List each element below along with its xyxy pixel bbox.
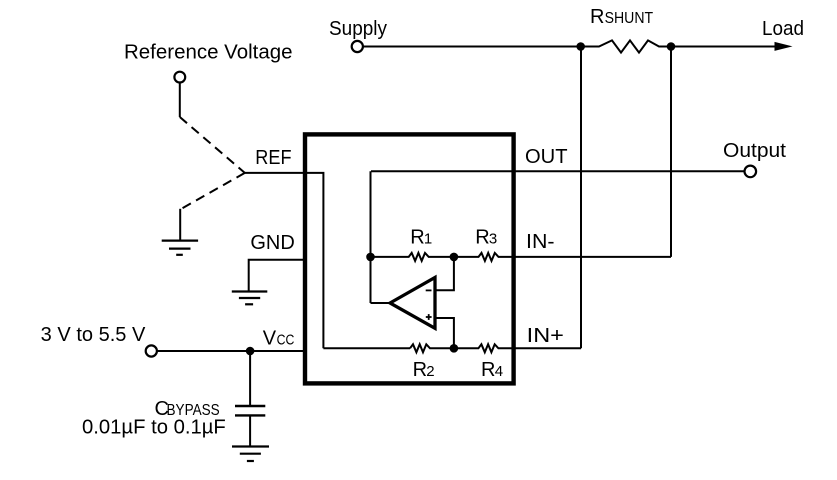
ground GND pin: [232, 292, 267, 305]
resistor R1: [371, 253, 454, 261]
node R1 left: [366, 253, 375, 262]
svg-text:SHUNT: SHUNT: [605, 10, 654, 27]
wire to reference ground: [179, 209, 181, 241]
resistor R2: [410, 344, 454, 352]
svg-text:IN-: IN-: [526, 231, 555, 253]
svg-text:R: R: [590, 6, 604, 28]
svg-text:3: 3: [489, 231, 497, 248]
svg-text:2: 2: [426, 363, 434, 380]
wire from reference terminal: [179, 83, 181, 117]
resistor R3: [454, 253, 520, 261]
wire IN-: [520, 256, 671, 258]
label REF: [255, 147, 291, 169]
label capacitor value: [82, 417, 226, 439]
wire Vcc: [157, 350, 305, 352]
op-amp A1: [390, 278, 435, 329]
svg-text:R: R: [475, 227, 489, 249]
wire REF trace: [245, 173, 324, 348]
svg-text:V: V: [263, 328, 277, 350]
wire shunt left vertical to IN+: [580, 47, 582, 349]
svg-text:OUT: OUT: [525, 146, 568, 168]
dashed wire REF node to ground: [181, 173, 245, 209]
label Supply: [329, 18, 387, 40]
label R2: [413, 359, 435, 381]
label R3: [475, 227, 497, 249]
svg-text:Output: Output: [723, 140, 786, 162]
terminal Supply: [352, 41, 363, 52]
wire supply to Rshunt: [363, 46, 581, 48]
node shunt left: [576, 42, 585, 51]
wire junction to capacitor: [249, 351, 251, 406]
svg-text:GND: GND: [250, 232, 294, 254]
node Vcc junction: [246, 347, 255, 356]
label Output: [723, 140, 786, 162]
IC box U1: [305, 134, 514, 383]
node inverting input: [450, 253, 459, 262]
wire GND pin: [249, 260, 305, 292]
wire OUT to Output terminal: [371, 170, 744, 172]
svg-text:3 V to 5.5 V: 3 V to 5.5 V: [41, 324, 146, 346]
dashed wire to REF node: [180, 117, 245, 173]
wire IN+: [520, 347, 581, 349]
label IN+: [527, 325, 564, 347]
resistor Rshunt: [581, 40, 671, 52]
svg-text:4: 4: [495, 363, 503, 380]
svg-text:Reference Voltage: Reference Voltage: [124, 42, 293, 64]
wire bottom rail left: [323, 347, 410, 349]
svg-text:R: R: [481, 359, 495, 381]
label Vcc: [263, 328, 295, 350]
svg-text:IN+: IN+: [527, 325, 564, 347]
label OUT: [525, 146, 568, 168]
wire non-inverting input stub: [437, 318, 454, 348]
wire op-amp output lead: [371, 302, 392, 304]
svg-text:Load: Load: [762, 18, 804, 40]
svg-text:R: R: [413, 359, 427, 381]
ground bypass: [232, 447, 269, 462]
label Rshunt: [590, 6, 653, 28]
svg-text:R: R: [410, 227, 424, 249]
node non-inverting input: [450, 344, 459, 353]
terminal supply voltage: [146, 345, 157, 356]
label Load: [762, 18, 804, 40]
wire op-amp output vertical: [370, 171, 372, 303]
label Reference Voltage: [124, 42, 293, 64]
wire to load arrow: [671, 42, 793, 51]
svg-text:CC: CC: [277, 332, 295, 349]
node shunt right: [667, 42, 676, 51]
ground reference: [162, 241, 198, 255]
label R1: [410, 227, 432, 249]
label 3 V to 5.5 V: [41, 324, 146, 346]
label IN-: [526, 231, 555, 253]
wire capacitor to ground: [249, 415, 251, 446]
terminal Reference Voltage: [174, 72, 185, 83]
wire shunt right vertical to IN-: [670, 47, 672, 257]
svg-text:REF: REF: [255, 147, 291, 169]
svg-text:Supply: Supply: [329, 18, 387, 40]
svg-text:1: 1: [424, 231, 432, 248]
svg-text:0.01µF to 0.1µF: 0.01µF to 0.1µF: [82, 417, 226, 439]
wire inverting input stub: [437, 258, 454, 290]
label Cbypass: [155, 398, 220, 420]
label GND: [250, 232, 294, 254]
terminal Output: [745, 166, 757, 178]
capacitor Cbypass: [235, 406, 265, 415]
resistor R4: [454, 344, 520, 352]
label R4: [481, 359, 503, 381]
